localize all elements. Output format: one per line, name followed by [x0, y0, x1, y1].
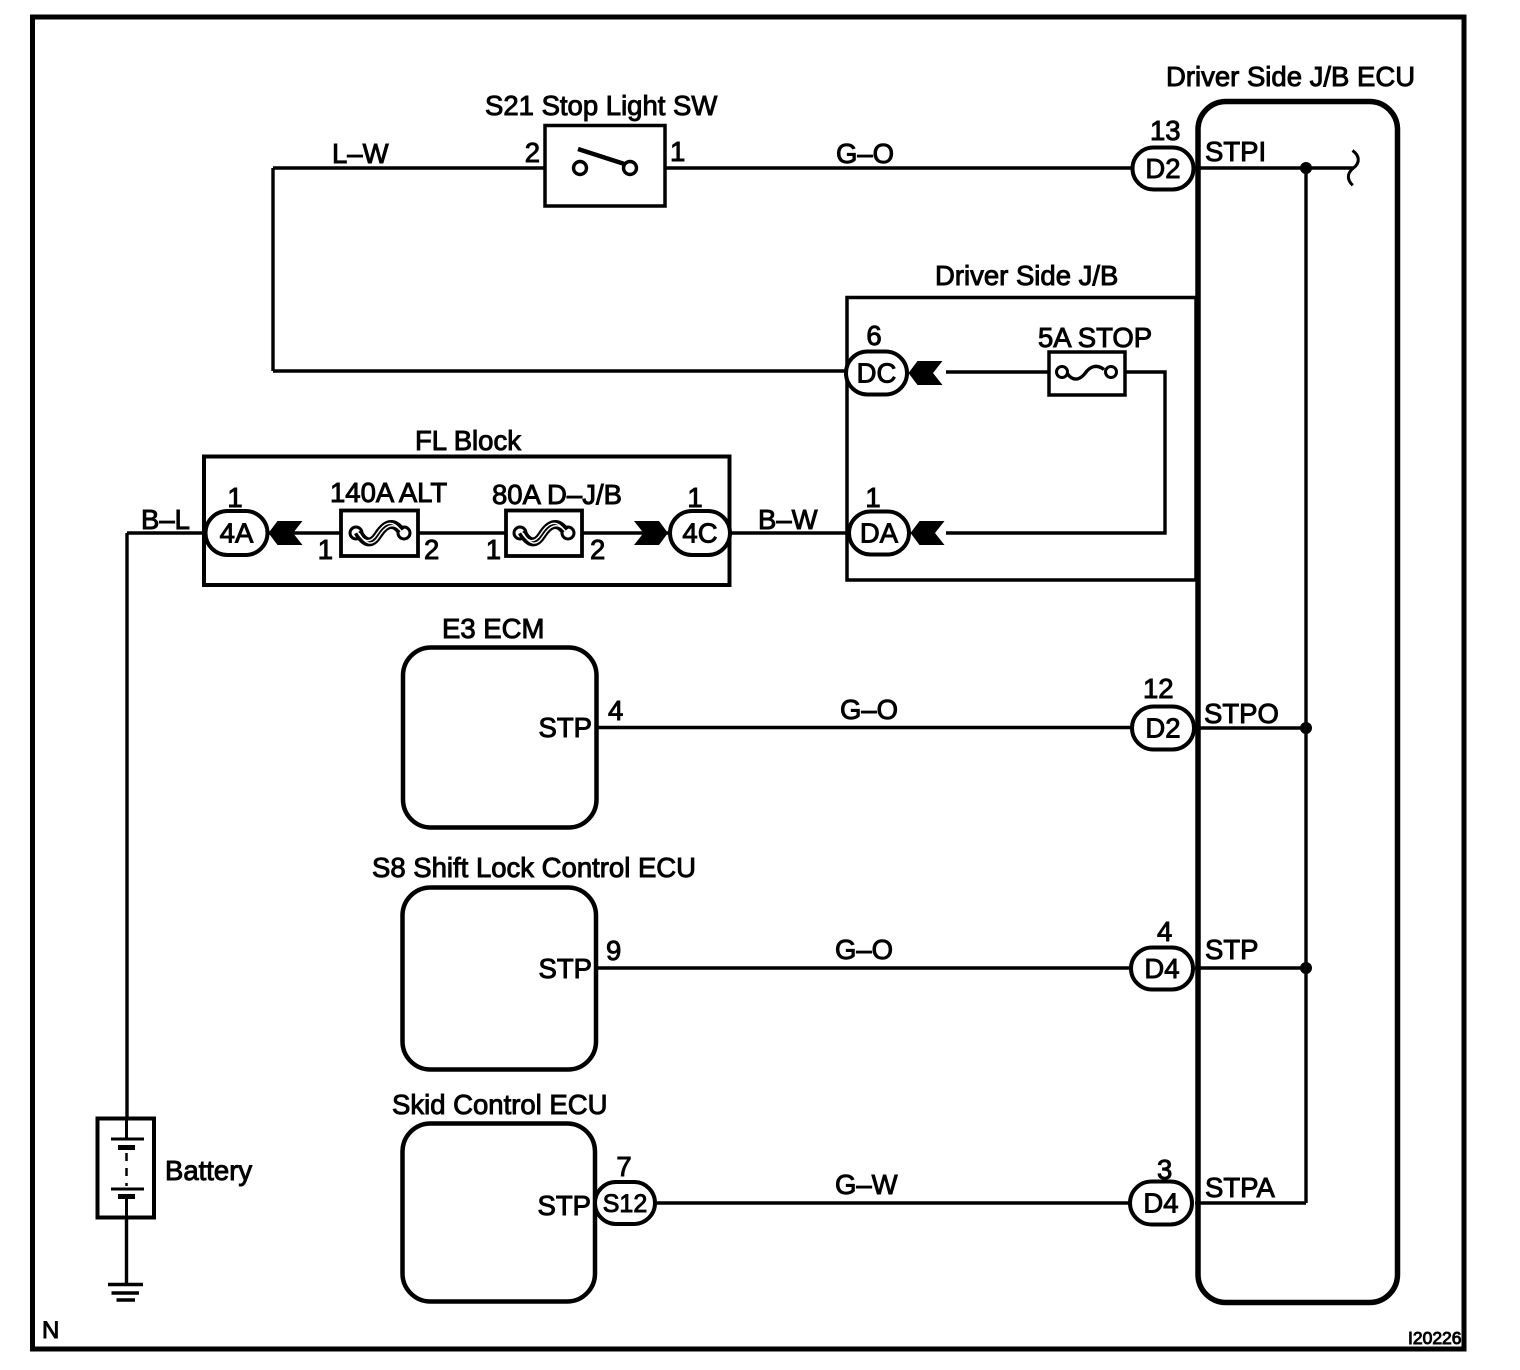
svg-text:STP: STP: [538, 1190, 591, 1221]
arrow at 4A: [269, 521, 303, 545]
arrow at DC: [909, 361, 943, 385]
wire internal bus vertical: [1304, 168, 1307, 1203]
battery dashed center: [125, 1153, 128, 1186]
Driver Side J/B box: [847, 298, 1196, 581]
wire FL internal 2: [418, 531, 506, 534]
E3 ECM box: [403, 648, 597, 828]
svg-text:4: 4: [608, 695, 623, 726]
svg-text:9: 9: [606, 935, 621, 966]
ground line 1: [108, 1283, 143, 1287]
svg-text:4C: 4C: [682, 518, 717, 549]
battery plate short top: [118, 1145, 135, 1150]
wire FL internal 3: [582, 531, 670, 534]
battery box: [98, 1119, 155, 1218]
svg-text:2: 2: [590, 534, 605, 565]
connector 4A pin 1: [206, 511, 268, 555]
svg-text:1: 1: [670, 136, 685, 167]
svg-text:E3 ECM: E3 ECM: [442, 613, 544, 644]
svg-text:DC: DC: [857, 358, 897, 389]
svg-text:DA: DA: [860, 518, 899, 549]
battery internal lead bottom: [125, 1199, 128, 1218]
wire FL internal 1: [266, 531, 341, 534]
svg-text:B–L: B–L: [141, 504, 190, 535]
svg-text:13: 13: [1150, 115, 1181, 146]
svg-text:3: 3: [1157, 1154, 1172, 1185]
connector D2 pin 13: [1133, 148, 1194, 190]
battery plate long top: [111, 1138, 144, 1141]
svg-text:D2: D2: [1145, 153, 1180, 184]
svg-text:G–O: G–O: [836, 138, 894, 169]
switch S21 contact left: [574, 162, 587, 175]
svg-text:G–O: G–O: [840, 694, 898, 725]
connector DC pin 6: [846, 352, 907, 395]
connector 4C pin 1: [670, 511, 730, 555]
switch S21 contact right: [624, 162, 637, 175]
connector S12 pin 7: [595, 1182, 655, 1224]
svg-text:6: 6: [866, 320, 881, 351]
svg-text:Skid Control ECU: Skid Control ECU: [392, 1089, 608, 1120]
svg-text:G–O: G–O: [835, 934, 893, 965]
svg-text:2: 2: [525, 137, 540, 168]
wire E3 STP to D2: [597, 726, 1135, 729]
wire STPA internal: [1195, 1201, 1306, 1204]
svg-text:S8 Shift Lock Control ECU: S8 Shift Lock Control ECU: [372, 852, 696, 883]
wire continuation squiggle: [1348, 151, 1358, 186]
wire 4C to DA: [730, 531, 851, 534]
svg-text:L–W: L–W: [332, 138, 389, 169]
junction dot STP: [1300, 962, 1312, 974]
svg-text:D2: D2: [1145, 713, 1180, 744]
connector D4 pin 3: [1130, 1182, 1192, 1225]
connector DA pin 1: [849, 512, 909, 555]
fuse 5A STOP: [1049, 352, 1125, 395]
arrow at DA: [911, 521, 945, 545]
wire L-W horizontal: [273, 166, 545, 169]
svg-text:1: 1: [318, 534, 333, 565]
svg-text:12: 12: [1143, 673, 1174, 704]
S8 Shift Lock Control ECU box: [403, 888, 597, 1070]
svg-text:1: 1: [865, 482, 880, 513]
svg-text:B–W: B–W: [758, 504, 818, 535]
wire battery to ground: [125, 1218, 128, 1284]
ECU box Driver Side J/B ECU: [1198, 102, 1398, 1303]
svg-text:FL Block: FL Block: [415, 425, 521, 456]
ground line 3: [117, 1298, 136, 1302]
svg-text:STPA: STPA: [1205, 1172, 1275, 1203]
switch S21 box: [545, 126, 665, 207]
svg-text:1: 1: [687, 482, 702, 513]
battery plate short bottom: [118, 1194, 135, 1199]
svg-text:I20226: I20226: [1408, 1328, 1462, 1348]
wire DC arrow to fuse: [946, 370, 1049, 373]
wire S8 STP to D4: [596, 966, 1133, 969]
switch S21 lever: [578, 149, 626, 165]
svg-text:STP: STP: [1205, 934, 1258, 965]
fuse 80A D-J/B: [506, 511, 582, 557]
fuse 140A ALT: [341, 511, 418, 557]
wire G-O switch to D2: [665, 166, 1135, 169]
svg-text:4: 4: [1157, 916, 1172, 947]
svg-text:1: 1: [486, 534, 501, 565]
svg-text:D4: D4: [1144, 953, 1179, 984]
battery plate long bottom: [111, 1188, 144, 1191]
FL Block box: [204, 457, 730, 586]
svg-text:STP: STP: [539, 712, 592, 743]
svg-text:5A STOP: 5A STOP: [1038, 322, 1152, 353]
svg-text:STP: STP: [539, 953, 592, 984]
svg-text:S12: S12: [603, 1190, 647, 1218]
svg-text:Driver Side J/B ECU: Driver Side J/B ECU: [1166, 61, 1415, 92]
ground line 2: [112, 1291, 140, 1295]
connector D2 pin 12: [1132, 707, 1194, 750]
svg-text:4A: 4A: [220, 518, 254, 549]
wire S12 to D4: [655, 1201, 1132, 1204]
wire STP internal: [1195, 966, 1306, 969]
junction dot STPI: [1300, 162, 1312, 174]
wire fuse to DA (right, down, left): [946, 372, 1165, 533]
svg-text:STPI: STPI: [1205, 136, 1266, 167]
svg-text:1: 1: [227, 482, 242, 513]
junction dot STPO: [1300, 722, 1312, 734]
svg-text:Battery: Battery: [165, 1155, 252, 1186]
svg-text:STPO: STPO: [1204, 698, 1279, 729]
svg-text:80A D–J/B: 80A D–J/B: [492, 479, 622, 510]
svg-text:2: 2: [424, 534, 439, 565]
arrow at 4C (right pointing): [634, 521, 668, 545]
svg-text:N: N: [42, 1317, 59, 1344]
connector D4 pin 4: [1131, 948, 1193, 990]
wire left loop vertical: [271, 168, 274, 371]
battery internal lead top: [125, 1118, 128, 1139]
wire STPO internal: [1195, 726, 1306, 729]
svg-text:S21 Stop Light SW: S21 Stop Light SW: [485, 90, 717, 121]
wire battery feed vertical: [125, 533, 128, 1118]
svg-text:Driver Side J/B: Driver Side J/B: [935, 260, 1118, 291]
svg-text:7: 7: [616, 1151, 631, 1182]
wire B-L: [127, 531, 208, 534]
Skid Control ECU box: [403, 1124, 596, 1302]
svg-text:140A ALT: 140A ALT: [330, 477, 447, 508]
svg-text:G–W: G–W: [835, 1169, 898, 1200]
svg-text:D4: D4: [1143, 1188, 1178, 1219]
wire STPI inside ECU: [1195, 166, 1353, 169]
wire loop bottom to DC: [273, 369, 850, 372]
